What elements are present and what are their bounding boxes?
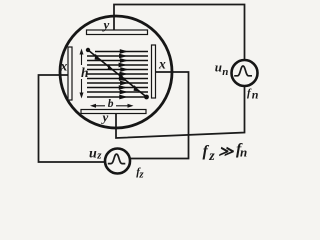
svg-text:y: y [101,110,109,125]
deflection plate left (x) [68,47,72,100]
svg-text:z: z [138,169,144,181]
wire top: y-plate to un generator top [114,5,245,61]
svg-text:y: y [102,17,110,32]
deflection plate top (y) [87,30,148,35]
dimension h (vertical double arrow) [80,49,84,99]
deflection plate right (x) [152,45,156,98]
raster scan lines with arrowheads [87,50,148,98]
svg-text:z: z [208,149,215,164]
svg-text:≫: ≫ [218,144,234,160]
svg-text:x: x [158,57,166,72]
svg-text:u: u [215,60,222,75]
deflection plate bottom (y) [81,110,146,114]
dimension b (horizontal double arrow) [90,104,134,108]
generator uz (sine source) [105,149,130,174]
CRT screen circle [60,16,172,128]
svg-text:b: b [108,98,114,110]
wire right: uz generator right to right x-plate [130,72,189,159]
svg-text:x: x [60,59,68,74]
svg-text:h: h [81,65,89,80]
wire left: left x-plate to uz generator left [39,75,106,162]
svg-text:n: n [240,145,247,160]
svg-text:z: z [96,149,102,161]
svg-text:n: n [252,87,259,101]
generator un (sine source) [232,60,258,86]
svg-text:n: n [222,66,228,78]
wire bottom: un generator bottom to lower y-plate [116,86,245,139]
svg-text:u: u [89,146,97,161]
diagonal trace with start/end dots and arrowheads [86,48,149,100]
